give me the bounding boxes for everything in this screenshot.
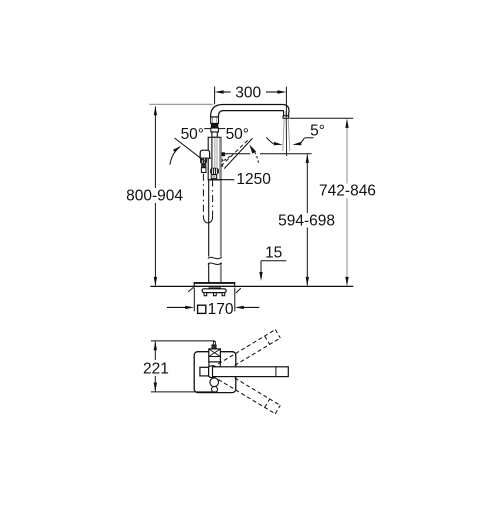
svg-text:1250: 1250 — [236, 171, 271, 188]
svg-text:800-904: 800-904 — [126, 188, 183, 205]
lever handle top view — [209, 349, 221, 362]
hand shower grip body — [201, 168, 206, 173]
rough-in body below floor — [209, 287, 222, 289]
right 50 dashed lever lines — [221, 140, 248, 166]
svg-text:170: 170 — [208, 301, 234, 318]
mixer body — [208, 137, 221, 180]
diverter stem — [211, 175, 216, 179]
5 deg left arc arrow — [266, 137, 275, 144]
svg-text:15: 15 — [265, 245, 282, 262]
lower column riser tube — [208, 180, 210, 283]
leader line for 1250 — [209, 179, 235, 181]
svg-text:50°: 50° — [181, 126, 204, 143]
dimension 594-698 — [225, 153, 251, 155]
base plate — [194, 283, 235, 287]
lever tip — [212, 345, 216, 349]
dimension 800-904 — [149, 103, 213, 105]
riser collar 2 — [211, 128, 219, 132]
floor hatch left — [188, 287, 193, 292]
black band on riser — [211, 123, 219, 128]
water stream right line — [288, 119, 290, 152]
strip connectors — [208, 362, 210, 367]
left 50 arc arrow — [170, 147, 180, 165]
hand shower knurled grip ring — [200, 158, 207, 164]
upper dashed spout arm — [218, 330, 280, 373]
dimension square-170 — [193, 288, 195, 312]
riser collar 1 — [211, 117, 219, 123]
dimension 300 — [214, 87, 216, 105]
svg-text:300: 300 — [235, 85, 261, 102]
lever knob on right of column — [221, 152, 225, 156]
spout bar top view — [207, 366, 219, 378]
dimension 15 — [261, 260, 286, 262]
floor line — [150, 285, 353, 287]
escutcheon square — [194, 352, 236, 393]
hand shower grip dark band — [201, 163, 206, 167]
column break symbol — [208, 257, 223, 263]
svg-text:221: 221 — [143, 360, 169, 377]
dimension 221 — [151, 340, 215, 342]
water stream left line — [283, 119, 284, 152]
svg-text:742-846: 742-846 — [319, 183, 376, 200]
5 deg right arc arrow — [300, 138, 305, 144]
left 50 angle leg — [175, 138, 205, 161]
floor hatch right — [236, 288, 241, 293]
centerline ticks beside black band — [204, 128, 210, 130]
svg-text:594-698: 594-698 — [278, 212, 335, 229]
riser neck — [212, 132, 217, 137]
hose port circles — [210, 378, 219, 387]
hand shower holder block — [200, 150, 211, 158]
right 50 angle leg — [224, 138, 252, 168]
svg-text:50°: 50° — [226, 126, 249, 143]
water stream centerline — [285, 111, 287, 156]
hand shower hose loop — [202, 174, 204, 216]
spout pipe outline — [211, 105, 289, 118]
aerator at spout tip — [283, 116, 289, 119]
lower dashed spout arm — [218, 371, 280, 414]
hand shower holder top view — [200, 367, 209, 376]
right 50 arc arrow — [252, 148, 259, 163]
svg-text:5°: 5° — [310, 123, 325, 140]
dimension 742-846 — [290, 117, 354, 119]
diverter knurled ring on column — [210, 168, 219, 175]
